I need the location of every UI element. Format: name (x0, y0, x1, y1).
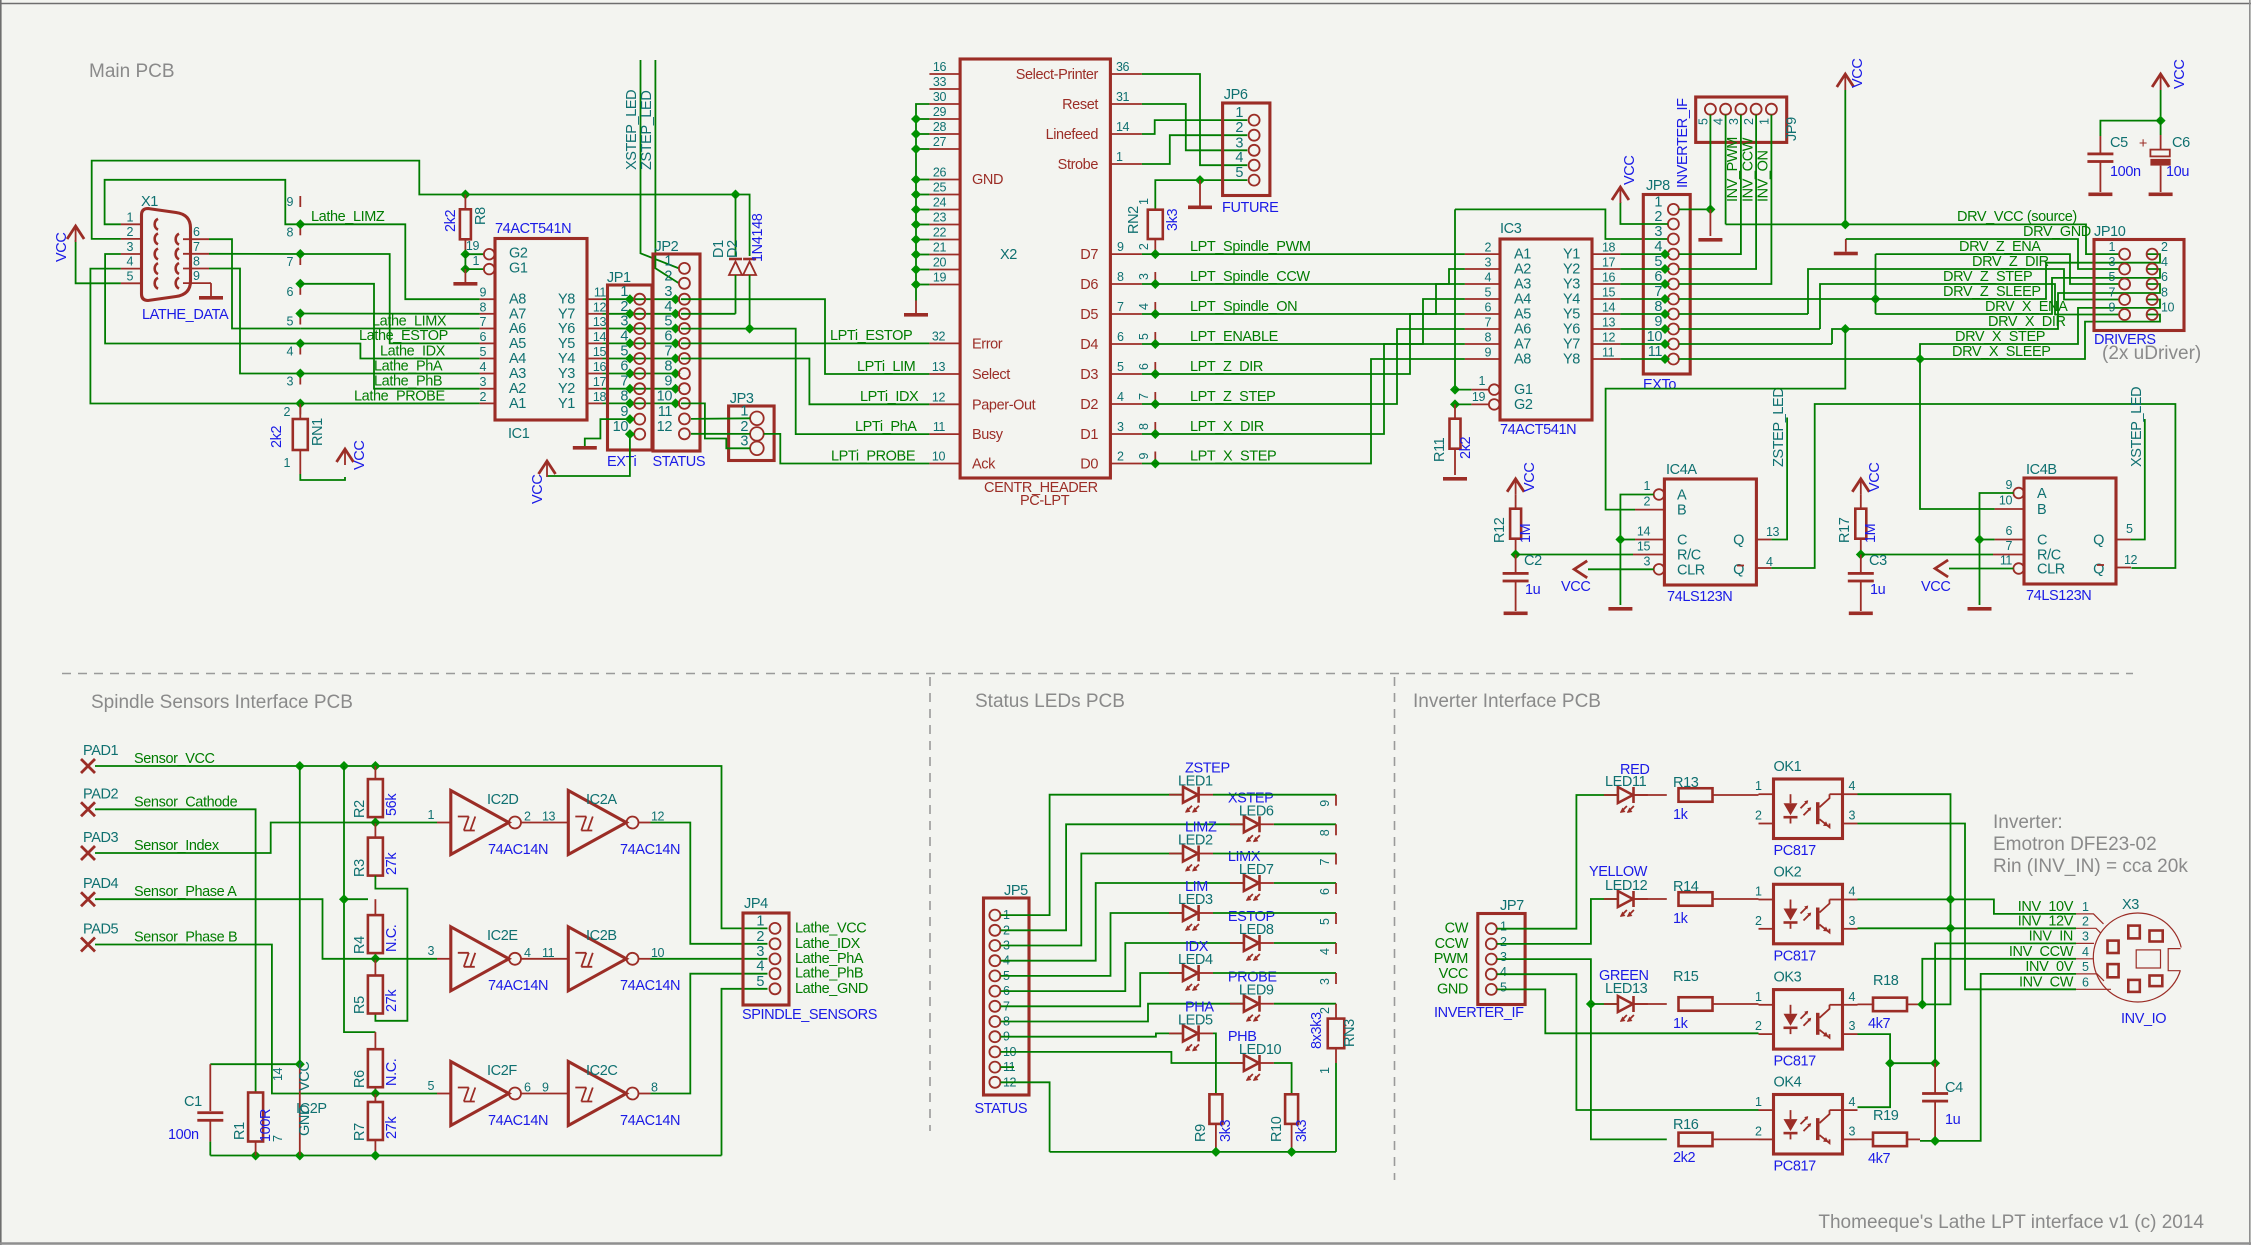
svg-text:4k7: 4k7 (1868, 1151, 1891, 1167)
svg-text:1k: 1k (1673, 1016, 1689, 1032)
wire X1 pin6 to Lathe_LIMX row (209, 239, 300, 328)
svg-text:74LS123N: 74LS123N (2026, 588, 2091, 604)
svg-text:2k2: 2k2 (1673, 1150, 1696, 1166)
svg-text:14: 14 (1602, 301, 1616, 315)
svg-text:2: 2 (664, 268, 672, 284)
svg-text:5: 5 (427, 1079, 434, 1093)
wire INV_ON JP9.1 to JP8.6 (1679, 115, 1772, 284)
svg-text:PAD3: PAD3 (83, 830, 119, 846)
pad PAD1 Sensor_VCC (81, 759, 95, 773)
svg-text:4: 4 (479, 360, 486, 374)
wire LPTi_LIM from Y8 row to X2 pin 13 (681, 299, 929, 374)
svg-text:INV_CW: INV_CW (2019, 974, 2074, 990)
svg-text:5: 5 (2108, 270, 2115, 284)
svg-text:3k3: 3k3 (1218, 1119, 1234, 1142)
wire OK3.3 to OK4.4 and C4 top (1858, 1034, 1891, 1107)
svg-text:DRV_X_STEP: DRV_X_STEP (1955, 329, 2045, 345)
wire LPTi_ESTOP from Y5 row to X2 pin 32 (681, 342, 929, 344)
svg-text:2: 2 (283, 405, 290, 419)
svg-text:STATUS: STATUS (653, 454, 706, 470)
svg-text:Status LEDs PCB: Status LEDs PCB (975, 691, 1125, 712)
svg-text:27k: 27k (384, 989, 400, 1012)
svg-text:23: 23 (933, 211, 947, 225)
svg-text:ZSTEP_LED: ZSTEP_LED (1771, 388, 1787, 467)
wire JP5 pin1 to LED1 (1000, 795, 1183, 915)
svg-text:8: 8 (1484, 331, 1491, 345)
svg-text:CLR: CLR (2037, 562, 2065, 578)
svg-text:3: 3 (2082, 929, 2089, 943)
svg-text:STATUS: STATUS (975, 1101, 1028, 1117)
svg-text:G2: G2 (509, 246, 528, 262)
svg-text:4: 4 (1318, 948, 1332, 955)
svg-text:Emotron DFE23-02: Emotron DFE23-02 (1993, 834, 2157, 855)
svg-text:Y7: Y7 (558, 306, 575, 322)
svg-text:D4: D4 (1080, 337, 1098, 353)
svg-text:2: 2 (1484, 241, 1491, 255)
resistor R11 (1450, 419, 1461, 449)
svg-text:74ACT541N: 74ACT541N (495, 221, 571, 237)
svg-text:CCW: CCW (1435, 936, 1469, 952)
svg-text:25: 25 (933, 181, 947, 195)
svg-text:6: 6 (1484, 301, 1491, 315)
wire Y7 to D1 (681, 313, 736, 315)
svg-text:1M: 1M (1518, 524, 1534, 543)
svg-text:X1: X1 (141, 194, 158, 210)
optocoupler OK3 PC817 (1774, 990, 1843, 1050)
svg-text:3: 3 (1318, 978, 1332, 985)
svg-text:R9: R9 (1193, 1124, 1209, 1142)
svg-text:8: 8 (1137, 423, 1151, 430)
svg-text:C5: C5 (2110, 135, 2128, 151)
JP1 pin9 wire to GND (585, 419, 630, 446)
svg-text:R5: R5 (352, 996, 368, 1014)
svg-text:1: 1 (664, 253, 672, 269)
wire JP5 pin3 to LED2 (1000, 854, 1183, 946)
svg-text:R1: R1 (232, 1122, 248, 1140)
svg-text:LPT_ENABLE: LPT_ENABLE (1190, 329, 1279, 345)
wires left column LED cathodes to RN3 pins (1213, 794, 1336, 796)
svg-text:6: 6 (193, 225, 200, 239)
svg-text:74AC14N: 74AC14N (620, 978, 680, 994)
wire X1 pin1 to RN1 pin8 (Lathe_LIMZ route) (105, 180, 301, 225)
svg-text:Reset: Reset (1062, 97, 1098, 113)
svg-text:JP4: JP4 (744, 896, 768, 912)
resistor R7 27k (374, 1094, 376, 1103)
svg-text:DRV_Z_DIR: DRV_Z_DIR (1972, 254, 2049, 270)
svg-text:6: 6 (524, 1081, 531, 1095)
svg-text:PAD1: PAD1 (83, 743, 119, 759)
svg-text:8: 8 (193, 255, 200, 269)
wire PROBE RN1.2 to IC1 A1 (300, 402, 479, 404)
svg-text:2: 2 (756, 929, 764, 945)
wire INV_CCW from R18 node (1922, 959, 2076, 1005)
svg-text:OK1: OK1 (1774, 759, 1802, 775)
svg-text:Paper-Out: Paper-Out (972, 397, 1036, 413)
svg-text:5: 5 (1500, 980, 1507, 994)
svg-text:12: 12 (1602, 331, 1616, 345)
IC1 G2 G1 inversion bubbles and pin numbers (484, 249, 495, 260)
svg-text:Lathe_LIMZ: Lathe_LIMZ (311, 209, 385, 225)
svg-text:PAD2: PAD2 (83, 786, 119, 802)
svg-text:1: 1 (1654, 194, 1662, 210)
svg-text:2: 2 (1117, 450, 1124, 464)
svg-text:4: 4 (1849, 779, 1856, 793)
svg-text:Rin (INV_IN) = cca 20k: Rin (INV_IN) = cca 20k (1993, 856, 2188, 877)
svg-text:R15: R15 (1673, 969, 1699, 985)
svg-text:7: 7 (271, 1135, 285, 1142)
wire Select-Printer 36 to JP6 pin4 (1142, 74, 1247, 165)
svg-text:SPINDLE_SENSORS: SPINDLE_SENSORS (742, 1007, 877, 1023)
svg-text:8: 8 (651, 1081, 658, 1095)
svg-text:2k2: 2k2 (443, 209, 459, 232)
svg-text:R/C: R/C (1677, 548, 1701, 564)
svg-text:RN1: RN1 (310, 418, 326, 446)
svg-text:R16: R16 (1673, 1117, 1699, 1133)
svg-text:PC817: PC817 (1774, 843, 1817, 859)
svg-text:LPTi_IDX: LPTi_IDX (860, 389, 919, 405)
svg-text:LPTi_PROBE: LPTi_PROBE (831, 449, 916, 465)
svg-text:6: 6 (2082, 975, 2089, 989)
svg-text:1: 1 (756, 913, 764, 929)
diode D2 1N4148 (743, 262, 756, 276)
wire LPTi_PROBE from JP3.2 to X2 pin 10 (764, 434, 930, 464)
LED LED13 GREEN (1618, 996, 1633, 1012)
svg-text:A1: A1 (509, 396, 526, 412)
X3 pin squares (2128, 926, 2140, 939)
X2 left lower signal pins 32,13,12,11,10 (929, 342, 960, 344)
svg-text:13: 13 (1602, 316, 1616, 330)
resistor network RN3 pin ticks (1335, 795, 1337, 806)
LED LED5 PHA (1183, 1025, 1198, 1041)
capacitor C1 100n (210, 1063, 299, 1065)
one-shot IC4A 74LS123N box (1664, 479, 1756, 585)
svg-text:C4: C4 (1945, 1080, 1963, 1096)
svg-text:14: 14 (593, 330, 607, 344)
svg-text:OK4: OK4 (1774, 1075, 1802, 1091)
one-shot IC4B 74LS123N box (2024, 478, 2116, 584)
wire DRV_X_STEP to JP10.8 (1920, 300, 2160, 360)
svg-text:1: 1 (1757, 118, 1771, 125)
inverter IC2F (451, 1062, 509, 1126)
RN2 pin ticks on D rows (1150, 249, 1160, 259)
svg-text:VCC: VCC (2172, 60, 2188, 89)
svg-text:9: 9 (542, 1081, 549, 1095)
svg-text:Y4: Y4 (1563, 292, 1580, 308)
svg-text:19: 19 (1472, 390, 1486, 404)
wire Lathe_LIMZ to IC1 A8 (300, 224, 479, 299)
svg-text:3: 3 (1849, 914, 1856, 928)
svg-text:IC4B: IC4B (2026, 462, 2057, 478)
svg-text:X2: X2 (1000, 247, 1017, 263)
svg-text:13: 13 (542, 810, 556, 824)
pin header JP4 SPINDLE_SENSORS (743, 913, 789, 1005)
svg-text:Error: Error (972, 336, 1003, 352)
wire LPT_X_STEP (1142, 359, 1465, 464)
svg-text:XSTEP_LED: XSTEP_LED (2129, 387, 2145, 467)
wire OK4.3 through R19 to INV_0V (1858, 1138, 1875, 1140)
resistor R4 N.C. (374, 899, 376, 915)
svg-text:LED6: LED6 (1239, 803, 1274, 819)
resistor R5 27k (374, 959, 376, 976)
svg-text:IC4A: IC4A (1666, 462, 1697, 478)
connector X2 CENTR_HEADER box (960, 59, 1110, 478)
wire IDX RN1.4 to IC1 A4 (300, 344, 479, 359)
svg-text:4: 4 (1500, 965, 1507, 979)
svg-text:C2: C2 (1524, 553, 1542, 569)
svg-text:JP6: JP6 (1224, 87, 1248, 103)
svg-text:R6: R6 (352, 1070, 368, 1088)
svg-text:Sensor_VCC: Sensor_VCC (134, 751, 215, 767)
svg-text:8: 8 (286, 225, 293, 239)
wire JP5 pin8 to LED9 (1000, 1004, 1244, 1022)
svg-text:15: 15 (1637, 540, 1651, 554)
svg-text:74ACT541N: 74ACT541N (1500, 422, 1576, 438)
svg-text:6: 6 (2005, 524, 2012, 538)
svg-text:6: 6 (286, 285, 293, 299)
svg-text:31: 31 (1116, 90, 1130, 104)
svg-text:B: B (1677, 503, 1686, 519)
svg-text:7: 7 (664, 344, 672, 360)
wire IC4A Qbar to long row 404 (1771, 404, 2175, 568)
svg-text:1M: 1M (1863, 524, 1879, 543)
wire JP7.3 down to R16 with LED13 tap (1497, 959, 1667, 1139)
svg-text:3: 3 (664, 284, 672, 300)
svg-text:Y3: Y3 (558, 366, 575, 382)
svg-text:Ack: Ack (972, 457, 996, 473)
svg-text:LATHE_DATA: LATHE_DATA (142, 307, 229, 323)
svg-text:4: 4 (1484, 271, 1491, 285)
svg-text:5: 5 (1137, 333, 1151, 340)
wire Sensor_Phase A to IC2E input row (95, 899, 368, 959)
svg-text:24: 24 (933, 196, 947, 210)
wire LED5 cathode to R9 (1213, 1033, 1216, 1094)
inverter IC2D (451, 791, 509, 855)
svg-text:Y6: Y6 (558, 321, 575, 337)
svg-text:D0: D0 (1080, 457, 1098, 473)
wire DRV_Z_STEP to JP10.9 (1820, 284, 2119, 329)
svg-text:9: 9 (1117, 240, 1124, 254)
pin header JP8 EXTo (1643, 195, 1690, 375)
svg-text:PAD5: PAD5 (83, 922, 119, 938)
svg-text:7: 7 (2108, 286, 2115, 300)
svg-text:13: 13 (932, 360, 946, 374)
pad PAD2 Sensor_Cathode (81, 802, 95, 816)
svg-text:VCC: VCC (1622, 156, 1638, 185)
svg-text:11: 11 (594, 286, 607, 300)
wire IC3 G pins to R11 and JP8.3 riser (1454, 209, 1456, 389)
svg-text:A4: A4 (509, 351, 526, 367)
svg-text:11: 11 (1648, 344, 1663, 360)
svg-text:D7: D7 (1080, 247, 1098, 263)
wire OK1.3 to INV_CW (1858, 824, 2077, 990)
wire IC2A out to JP4 pin2 (651, 823, 768, 944)
wire XSTEP_LED from IC4B Q (2131, 419, 2145, 540)
svg-text:DRV_X_SLEEP: DRV_X_SLEEP (1952, 344, 2051, 360)
svg-text:EXTo: EXTo (1643, 377, 1676, 393)
svg-text:LPTi_PhA: LPTi_PhA (855, 419, 917, 435)
svg-text:DRV_Z_ENA: DRV_Z_ENA (1959, 239, 2041, 255)
wire IC4B A input to GND vertical (1980, 493, 2014, 605)
wire JP5 pin5 to LED3 (1000, 913, 1183, 976)
svg-text:R14: R14 (1673, 879, 1699, 895)
svg-text:4: 4 (1137, 303, 1151, 310)
svg-text:LPTi_LIM: LPTi_LIM (857, 359, 915, 375)
svg-text:7: 7 (193, 240, 200, 254)
pin header JP5 STATUS (984, 898, 1030, 1095)
svg-text:3: 3 (427, 944, 434, 958)
wire LPT_Z_STEP (1142, 329, 1465, 404)
svg-text:Y5: Y5 (558, 336, 575, 352)
svg-text:56k: 56k (384, 793, 400, 816)
svg-text:4: 4 (664, 299, 672, 315)
svg-text:2: 2 (2082, 914, 2089, 928)
svg-text:1: 1 (427, 808, 434, 822)
svg-text:5: 5 (1117, 360, 1124, 374)
svg-text:A6: A6 (509, 321, 526, 337)
wire LPT_Spindle_PWM (1142, 253, 1465, 255)
svg-text:INVERTER_IF: INVERTER_IF (1675, 98, 1691, 188)
svg-text:Q: Q (2093, 533, 2104, 549)
svg-text:7: 7 (1137, 393, 1151, 400)
optocoupler OK4 PC817 (1774, 1095, 1843, 1155)
svg-text:6: 6 (1137, 363, 1151, 370)
wire IC4A B input from EXTo row (1606, 329, 1846, 510)
svg-text:ZSTEP_LED: ZSTEP_LED (639, 91, 655, 170)
svg-text:14: 14 (271, 1067, 285, 1081)
svg-text:1: 1 (1318, 1067, 1332, 1074)
svg-text:VCC: VCC (297, 1062, 313, 1091)
svg-text:N.C.: N.C. (384, 1059, 400, 1086)
svg-text:C1: C1 (184, 1094, 202, 1110)
svg-text:JP7: JP7 (1500, 898, 1524, 914)
wire DRV_X_DIR to JP10.6 (1832, 284, 2160, 344)
LED LED6 XSTEP (1244, 816, 1259, 832)
wire IC4A A input to GND vertical (1620, 495, 1653, 606)
svg-text:4: 4 (1849, 885, 1856, 899)
svg-text:3: 3 (1500, 950, 1507, 964)
dashed separator vertical left (929, 677, 931, 1131)
capacitor C6 10u polarized (2160, 135, 2162, 150)
svg-text:Lathe_GND: Lathe_GND (795, 981, 868, 997)
svg-text:1: 1 (620, 284, 628, 300)
page border frame (0, 3, 2251, 5)
svg-text:8: 8 (620, 388, 628, 404)
wire DRV_Z_ENA row to JP10.5 (1876, 254, 2120, 284)
capacitor C2 1u (1515, 555, 1517, 574)
svg-text:LPT_Spindle_CCW: LPT_Spindle_CCW (1190, 269, 1310, 285)
svg-text:36: 36 (1116, 60, 1130, 74)
svg-text:INV_PWM: INV_PWM (1725, 137, 1741, 202)
svg-text:DRV_GND: DRV_GND (2023, 224, 2091, 240)
RN1 pin9 stub (unconnected) (299, 196, 301, 207)
svg-text:2: 2 (479, 390, 486, 404)
wire JP5 pin11 stub (1000, 1066, 1014, 1068)
svg-text:4: 4 (1849, 990, 1856, 1004)
wire JP7.2 to LED12 (1497, 899, 1618, 944)
wire JP7.5 to OK3 pin2 row (1497, 989, 1759, 1033)
optocoupler OK2 PC817 (1774, 884, 1843, 944)
wire JP5 pin10 to LED10 (1000, 1052, 1244, 1063)
svg-text:PC817: PC817 (1774, 1054, 1817, 1070)
svg-text:1u: 1u (1945, 1112, 1961, 1128)
svg-text:Thomeeque's Lathe LPT interfac: Thomeeque's Lathe LPT interface v1 (c) 2… (1818, 1212, 2204, 1233)
svg-text:13: 13 (1766, 525, 1780, 539)
wire Strobe 1 to JP6 pin2 (1142, 135, 1247, 164)
svg-text:3: 3 (1849, 809, 1856, 823)
svg-text:VCC: VCC (54, 233, 70, 262)
wire DRV_VCC (source) row (1726, 224, 2119, 254)
svg-text:4k7: 4k7 (1868, 1016, 1891, 1032)
RN1 pin 5 (299, 314, 301, 325)
LED LED8 ESTOP (1244, 935, 1259, 951)
wire LPT_Spindle_CCW (1142, 269, 1465, 284)
LED LED10 PHB (1244, 1055, 1259, 1071)
svg-text:3: 3 (1849, 1124, 1856, 1138)
svg-text:3: 3 (1484, 256, 1491, 270)
svg-text:10: 10 (2161, 301, 2175, 315)
svg-text:JP8: JP8 (1646, 178, 1670, 194)
svg-text:Main PCB: Main PCB (89, 61, 175, 82)
svg-text:PAD4: PAD4 (83, 876, 119, 892)
svg-text:GND: GND (1437, 981, 1468, 997)
svg-text:74AC14N: 74AC14N (488, 842, 548, 858)
X2 left pins upper block 16,33,30,29,28,27 (929, 73, 960, 75)
svg-text:R18: R18 (1873, 973, 1899, 989)
svg-text:INV_0V: INV_0V (2025, 959, 2073, 975)
IC 74ACT541N IC1 box (495, 239, 587, 421)
svg-text:8: 8 (1117, 270, 1124, 284)
svg-text:3: 3 (1654, 224, 1662, 240)
svg-text:8: 8 (664, 359, 672, 375)
svg-text:1: 1 (2082, 900, 2089, 914)
svg-text:3: 3 (1235, 135, 1243, 151)
svg-text:4: 4 (1235, 150, 1243, 166)
svg-text:R8: R8 (473, 207, 489, 225)
svg-text:D3: D3 (1080, 367, 1098, 383)
svg-text:RN3: RN3 (1342, 1019, 1358, 1047)
svg-text:(2x uDriver): (2x uDriver) (2102, 343, 2201, 364)
wire Sensor_Cathode to R1 (95, 809, 256, 1092)
capacitor C4 1u (1934, 1063, 1936, 1093)
svg-text:14: 14 (1637, 525, 1651, 539)
svg-text:R11: R11 (1432, 437, 1448, 462)
resistor R8 (460, 209, 471, 239)
wire JP5 pin6 to LED8 (1000, 943, 1244, 991)
svg-text:100n: 100n (2110, 164, 2141, 180)
svg-text:PC817: PC817 (1774, 948, 1817, 964)
wire LIM RN1.5 to IC1 A7 (300, 313, 479, 315)
wire GND row to JP4 pin5 (722, 989, 768, 1156)
svg-text:R19: R19 (1873, 1108, 1899, 1124)
resistor R14 1k (1679, 892, 1713, 906)
RN1 pin 2 (299, 404, 301, 415)
resistor RN1 body (293, 419, 308, 450)
svg-text:D5: D5 (1080, 307, 1098, 323)
svg-text:VCC: VCC (1561, 579, 1590, 595)
svg-text:LPTi_ESTOP: LPTi_ESTOP (830, 328, 912, 344)
svg-text:A2: A2 (509, 381, 526, 397)
svg-text:B: B (2037, 502, 2046, 518)
wire JP5 pin9 to LED5 (1000, 1033, 1183, 1036)
LED LED3 LIM (1183, 905, 1198, 921)
svg-text:27: 27 (933, 135, 947, 149)
VCC and R17 for IC4B R/C (1852, 479, 1869, 492)
wire JP5 pin12 to bottom row (1000, 1082, 1049, 1152)
svg-text:15: 15 (1602, 286, 1616, 300)
wire LPT_Spindle_ON (1142, 284, 1465, 314)
svg-text:INV_CCW: INV_CCW (2009, 944, 2074, 960)
svg-text:8: 8 (479, 300, 486, 314)
